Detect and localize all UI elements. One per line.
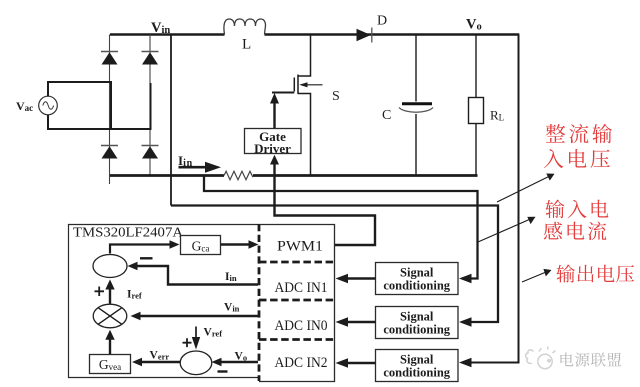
svg-text:Vo: Vo (235, 351, 248, 363)
bridge right leg (149, 35, 151, 176)
AC source Vac (39, 96, 58, 115)
DSP TMS320LF2407A box (69, 225, 260, 378)
svg-text:conditioning: conditioning (383, 279, 450, 293)
peripheral column box (259, 225, 335, 382)
sign plus at summing2 (183, 338, 192, 347)
diode D (357, 29, 371, 41)
svg-text:ADC IN1: ADC IN1 (275, 280, 328, 296)
svg-text:Signal: Signal (400, 310, 434, 324)
sign plus at summing1 (95, 287, 105, 297)
resistor RL (469, 35, 505, 176)
wire gate lead with arrow (270, 93, 294, 130)
svg-text:Driver: Driver (254, 141, 291, 156)
dashed separator 1 (259, 261, 334, 264)
svg-text:Iin: Iin (225, 271, 237, 283)
Gate Driver box (245, 129, 302, 157)
wire Vin into multiplier (131, 312, 259, 321)
annotation rectified input voltage (red) (544, 124, 612, 168)
wire top bus (110, 33, 519, 36)
diode D2 (top right) (142, 52, 158, 64)
dashed DSP boundary (258, 224, 261, 381)
wire ground bus (bus1) (110, 174, 478, 177)
summing junction 1 (93, 255, 127, 278)
wire PWM1 to Gate Driver (270, 155, 375, 245)
wire Iin sense (bus2) (204, 176, 478, 279)
wire Vin sense (bus3) (171, 206, 498, 323)
wire Verr summing2 to Gvea (132, 358, 181, 367)
svg-text:Verr: Verr (150, 350, 170, 362)
wire Iin feedback into summing1 (128, 262, 259, 285)
svg-text:ADC IN0: ADC IN0 (275, 318, 328, 334)
watermark text (560, 352, 573, 366)
annotation output voltage (red) (556, 264, 634, 282)
svg-text:S: S (332, 89, 340, 104)
wire AC loop (48, 82, 151, 129)
svg-text:Vin: Vin (151, 20, 170, 36)
svg-text:Signal: Signal (400, 353, 434, 367)
wire Vo into summing2 (212, 358, 259, 367)
diode D1 (top left) (102, 52, 118, 64)
svg-text:Signal: Signal (400, 266, 434, 280)
wire Vin sense vertical (170, 35, 172, 206)
resistor Rsense zigzag (224, 171, 253, 179)
sign minus at summing2 (218, 370, 228, 372)
svg-text:C: C (382, 108, 391, 123)
watermark icon (526, 347, 556, 369)
svg-text:D: D (377, 14, 387, 29)
Gca box (181, 236, 221, 255)
wire Gca to PWM1 (221, 240, 259, 249)
signal conditioning box 3 (376, 350, 459, 382)
signal conditioning box 1 (376, 263, 459, 295)
callout arrow 2 (input inductor current) (478, 217, 536, 242)
Gvea box (90, 355, 131, 374)
wire summing1 to Gca (110, 240, 180, 253)
callout arrow 3 (output voltage) (522, 269, 552, 282)
svg-text:RL: RL (490, 108, 504, 123)
dashed separator 3 (259, 338, 334, 341)
svg-text:Vref: Vref (204, 327, 223, 339)
multiplier (93, 304, 127, 328)
svg-text:PWM1: PWM1 (277, 239, 323, 255)
wire Gvea to multiplier (105, 330, 114, 354)
capacitor C (382, 35, 433, 176)
summing junction 2 (180, 351, 212, 375)
svg-text:Iref: Iref (127, 289, 142, 301)
diode D3 (bottom left) (102, 146, 118, 158)
svg-text:Vin: Vin (224, 302, 240, 314)
wire Vref into summing2 (192, 327, 200, 350)
inductor L (224, 19, 266, 35)
svg-text:conditioning: conditioning (383, 366, 450, 380)
svg-text:TMS320LF2407A: TMS320LF2407A (73, 225, 183, 240)
svg-text:Vac: Vac (16, 99, 33, 113)
wire SC1 to ADC (336, 274, 376, 284)
signal conditioning box 2 (376, 307, 459, 339)
svg-text:ADC IN2: ADC IN2 (275, 355, 328, 371)
wire Iref multiplier to summing1 (105, 280, 114, 304)
bridge left leg (109, 35, 111, 185)
annotation input inductor current (red) (544, 200, 609, 241)
MOSFET S (294, 35, 339, 176)
svg-text:L: L (242, 37, 251, 53)
wire SC3 to ADC (336, 358, 376, 368)
sign minus at summing1 (140, 257, 153, 259)
svg-text:conditioning: conditioning (383, 323, 450, 337)
wire Vo sense vertical (462, 35, 519, 363)
diode D4 (bottom right) (142, 146, 158, 158)
label Iin with arrow (178, 153, 221, 173)
callout arrow 1 (rectified input voltage) (497, 174, 555, 203)
dashed separator 2 (259, 299, 334, 302)
wire SC2 to ADC (336, 317, 376, 327)
svg-text:Vo: Vo (466, 17, 482, 33)
